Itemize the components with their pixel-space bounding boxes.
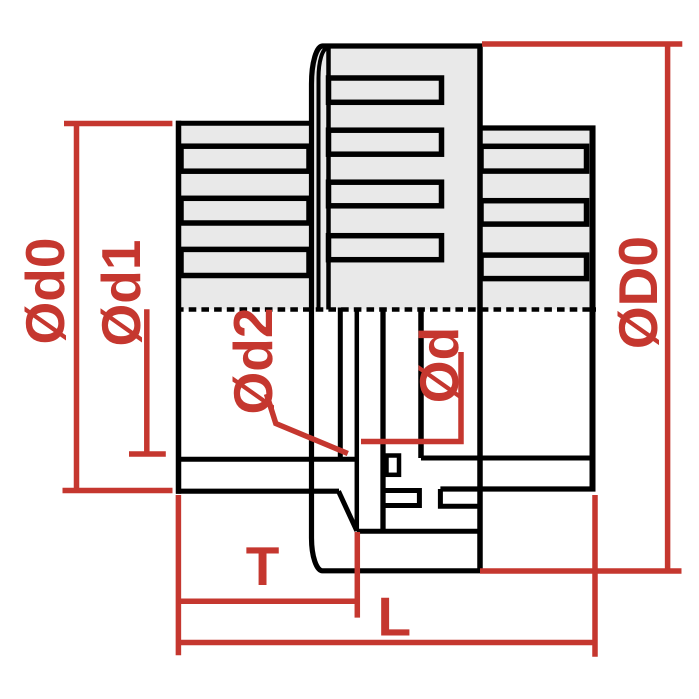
sleeve end face (355, 308, 360, 532)
nut rib slot 1 (329, 78, 442, 102)
sleeve bottom line (357, 529, 480, 534)
dim Ød0 top bar (64, 121, 172, 127)
svg-text:T: T (246, 535, 280, 597)
union nut outer contour (top edge, rounded left shoulder, bottom skirt) (312, 46, 483, 571)
left body bottom edge (176, 489, 339, 494)
socket stop wall (338, 308, 343, 460)
right bore line (421, 456, 596, 461)
svg-text:Ød1: Ød1 (90, 240, 152, 347)
union nut rib base line (326, 48, 331, 310)
right body rib 3 (481, 255, 587, 279)
svg-text:Ød2: Ød2 (222, 308, 284, 415)
right body rib 1 (481, 146, 587, 171)
dim T extension line (355, 532, 361, 618)
svg-text:ØD0: ØD0 (607, 236, 669, 349)
dim L right extension line (592, 495, 598, 657)
svg-text:Ød: Ød (408, 327, 470, 403)
left body rib 2 (181, 198, 309, 223)
dim left extension line (176, 495, 182, 655)
dim Ød1 line (144, 309, 150, 454)
seat shoulder left (383, 491, 419, 506)
sleeve chamfer (339, 491, 357, 531)
dim OD0 top bar (482, 41, 682, 47)
leader Ød (361, 352, 461, 442)
left body left edge (176, 121, 182, 494)
dim Ød1 bottom bar (129, 451, 166, 457)
dim T line (178, 598, 357, 604)
svg-text:L: L (378, 586, 412, 648)
nut rib slot 4 (329, 236, 442, 260)
red dimension graphics (63, 44, 683, 657)
left body top edge (176, 121, 312, 126)
right body right edge (590, 126, 596, 492)
insert wall (380, 308, 385, 532)
left body rib 3 (181, 249, 309, 275)
left bore line (176, 457, 357, 462)
leader Ød2 (267, 394, 348, 454)
dim OD0 line (665, 44, 671, 571)
dim OD0 bottom bar (480, 568, 682, 574)
seat shoulder right (440, 489, 480, 506)
dim L line (178, 640, 595, 646)
union nut inner shoulder line (319, 48, 328, 310)
right bore wall (418, 308, 424, 459)
centerline (dotted) (176, 307, 596, 312)
nut rib slot 3 (329, 182, 442, 206)
right body rib 2 (481, 201, 587, 224)
svg-text:Ød0: Ød0 (14, 238, 76, 345)
dim Ød0 line (74, 124, 80, 491)
o-ring groove box (387, 456, 400, 475)
right body top edge (480, 125, 596, 130)
left body rib 1 (181, 146, 309, 171)
gray upper half fill (176, 44, 596, 310)
union nut right edge (477, 44, 483, 571)
nut rib slot 2 (329, 130, 442, 154)
dim Ød0 bottom bar (63, 488, 173, 494)
right body bottom edge (440, 486, 595, 491)
